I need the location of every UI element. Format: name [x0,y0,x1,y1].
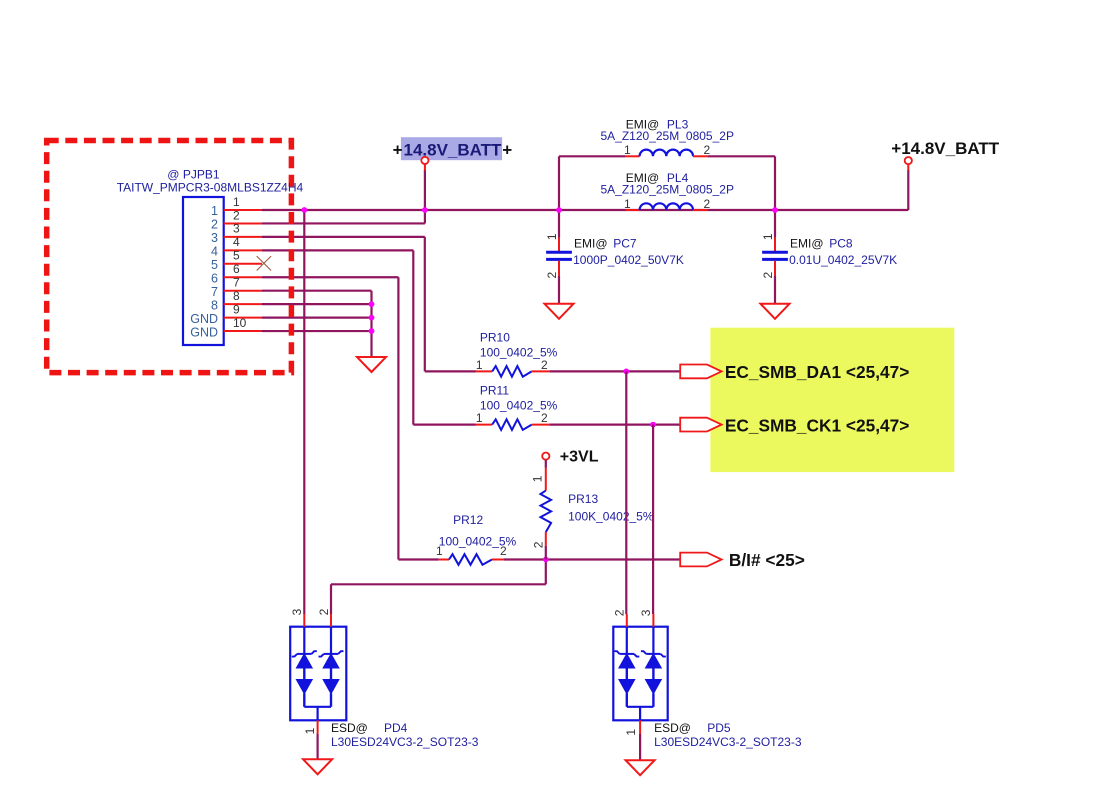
PD5 pin 3 stub [652,614,654,627]
left +14.8V_BATT terminal [421,157,428,164]
svg-text:6: 6 [211,271,218,285]
svg-text:1: 1 [476,358,483,372]
svg-text:GND: GND [190,312,218,326]
svg-text:5: 5 [233,249,240,263]
PJPB1 pin 6 stub [224,276,262,278]
svg-text:2: 2 [541,411,548,425]
ground symbol of PC7 [545,304,574,319]
junction bus / left terminal [422,207,428,213]
svg-text:1000P_0402_50V7K: 1000P_0402_50V7K [573,253,684,267]
svg-text:GND: GND [190,325,218,339]
PD5 pin 1 stub [639,720,641,734]
svg-text:8: 8 [211,298,218,312]
svg-text:3: 3 [639,609,653,616]
wire PR12 pin2 to B/I# node [504,558,546,560]
svg-text:TAITW_PMPCR3-08MLBS1ZZ4H4: TAITW_PMPCR3-08MLBS1ZZ4H4 [117,181,304,195]
yellow highlight box over SMBus net names [710,328,954,472]
svg-text:4: 4 [211,245,218,259]
svg-text:1: 1 [761,233,775,240]
resistor PR11 [476,424,492,426]
PJPB1 pin 3 stub [224,236,262,238]
svg-text:1: 1 [624,143,631,157]
resistor PR13 (vertical) [541,491,552,532]
PD4 pin 2 stub [330,614,332,627]
output flag EC_SMB_DA1 [680,365,721,379]
wire right +14.8V_BATT terminal riser [907,170,909,210]
svg-text:ESD@: ESD@ [654,721,691,735]
wire bus down to PD4 pin3 [303,210,305,614]
no-connect X on pin 5 [257,256,271,270]
svg-text:10: 10 [233,316,247,330]
svg-text:100_0402_5%: 100_0402_5% [480,399,558,413]
wire left +14.8V_BATT terminal riser [424,170,426,210]
svg-text:PC8: PC8 [829,237,853,251]
wire PC7 to ground [558,276,560,304]
svg-text:7: 7 [211,285,218,299]
junction SMB_CK1 node [650,422,656,428]
svg-text:+: + [393,140,403,159]
net label +14.8V_BATT (left, highlighted) [401,137,502,160]
output flag EC_SMB_CK1 [680,418,721,432]
svg-text:2: 2 [233,208,240,222]
svg-text:EMI@: EMI@ [574,237,608,251]
svg-text:2: 2 [612,609,626,616]
PJPB1 pin 8 stub [224,303,262,305]
svg-text:5: 5 [211,258,218,272]
wire B/I# node to flag [546,558,680,560]
svg-text:9: 9 [233,302,240,316]
PD5 pin 2 stub [626,614,628,627]
PJPB1 pin 1 stub [224,209,262,211]
svg-text:ESD@: ESD@ [331,721,368,735]
svg-text:+14.8V_BATT: +14.8V_BATT [891,139,999,158]
svg-text:3: 3 [290,608,304,615]
svg-text:3: 3 [233,222,240,236]
PJPB1 pin 5 stub [224,263,262,265]
PJPB1 pin 9 stub [224,317,262,319]
wire +14.8V_BATT bus (connector pin1 to right terminal) [262,209,908,211]
wire PR11 pin2 to EC_SMB_CK1 flag [549,424,680,426]
svg-text:2: 2 [211,218,218,232]
svg-text:14.8V_BATT: 14.8V_BATT [404,140,503,159]
svg-text:4: 4 [233,235,240,249]
resistor PR10 [476,370,492,372]
svg-text:EC_SMB_DA1 <25,47>: EC_SMB_DA1 <25,47> [725,362,909,382]
PJPB1 pin 4 stub [224,249,262,251]
svg-text:EMI@: EMI@ [790,237,824,251]
wire B/I# node down to PD4 pin2 [545,560,547,585]
svg-text:0.01U_0402_25V7K: 0.01U_0402_25V7K [789,253,897,267]
svg-text:1: 1 [476,411,483,425]
svg-text:5A_Z120_25M_0805_2P: 5A_Z120_25M_0805_2P [601,129,734,143]
svg-text:PD5: PD5 [707,721,731,735]
svg-text:PR13: PR13 [568,492,598,506]
svg-text:@ PJPB1: @ PJPB1 [167,168,220,182]
wire SMB_DA1 node down to PD5 pin2 [625,371,627,614]
output flag B/I# [680,553,721,567]
wire connector pin10 GND to ground rail [262,330,372,332]
junction bus / PD4 pin3 [301,207,307,213]
ground symbol under connector pins [357,357,386,372]
wire connector pin3 to PR10 pin1 [262,236,425,238]
ground symbol of PD4 [303,759,332,774]
svg-text:2: 2 [704,197,711,211]
svg-text:PR11: PR11 [480,384,509,398]
ESD diode array PD4 [290,627,346,721]
wire connector pin9 GND to ground rail [262,317,372,319]
ground symbol of PD5 [626,760,655,775]
svg-text:1: 1 [211,204,218,218]
PJPB1 pin 2 stub [224,222,262,224]
svg-text:2: 2 [545,272,559,279]
PD4 pin 1 stub [317,720,319,734]
wire PL3 upper branch [558,156,560,210]
svg-text:3: 3 [211,231,218,245]
connector PJPB1 body [183,197,224,345]
resistor PR12 [439,559,449,561]
svg-text:100K_0402_5%: 100K_0402_5% [568,510,654,524]
wire PC8 drop from bus [774,210,776,238]
wire connector pin8 to ground rail [262,303,372,305]
svg-text:L30ESD24VC3-2_SOT23-3: L30ESD24VC3-2_SOT23-3 [331,735,479,749]
PJPB1 pin 7 stub [224,290,262,292]
svg-text:2: 2 [541,358,548,372]
svg-text:+: + [502,140,512,159]
+3VL terminal [542,453,549,460]
capacitor PC8 [774,238,776,251]
wire connector pin6 to PR12 pin1 [262,276,398,278]
svg-text:100_0402_5%: 100_0402_5% [439,534,517,548]
junction SMB_DA1 node [623,369,629,375]
svg-text:6: 6 [233,262,240,276]
svg-text:1: 1 [233,195,240,209]
svg-text:B/I# <25>: B/I# <25> [729,550,805,570]
svg-text:8: 8 [233,289,240,303]
svg-text:2: 2 [761,272,775,279]
svg-text:1: 1 [624,197,631,211]
svg-text:L30ESD24VC3-2_SOT23-3: L30ESD24VC3-2_SOT23-3 [654,735,802,749]
capacitor PC7 [558,238,560,251]
svg-text:7: 7 [233,276,240,290]
wire PC8 to ground [774,276,776,304]
inductor PL3 [625,155,639,157]
svg-text:1: 1 [624,729,638,736]
junction gnd rail pin8 [369,301,375,307]
wire connector pin2 to bus [262,222,425,224]
svg-text:EC_SMB_CK1 <25,47>: EC_SMB_CK1 <25,47> [725,415,909,435]
svg-text:5A_Z120_25M_0805_2P: 5A_Z120_25M_0805_2P [601,183,734,197]
svg-text:100_0402_5%: 100_0402_5% [480,345,558,359]
svg-text:PC7: PC7 [613,237,637,251]
junction gnd rail pin10 [369,328,375,334]
inductor PL4 [625,209,639,211]
wire connector pin7 to ground rail [262,290,372,292]
wire +3VL terminal to PR13 pin1 [545,460,547,468]
junction gnd rail pin9 [369,315,375,321]
wire SMB_CK1 node down to PD5 pin3 [652,425,654,614]
PD4 pin 3 stub [303,614,305,627]
wire PD4 pin1 to ground [317,734,319,759]
ground symbol of PC8 [761,304,790,319]
svg-text:2: 2 [317,608,331,615]
wire connector pin4 to PR11 pin1 [262,249,413,251]
svg-text:PR10: PR10 [480,330,510,344]
svg-text:2: 2 [704,143,711,157]
svg-text:1: 1 [303,727,317,734]
ESD diode array PD5 [613,627,667,721]
svg-text:PR12: PR12 [453,513,483,527]
svg-text:1: 1 [545,233,559,240]
junction B/I# node [543,557,549,563]
PJPB1 pin 10 stub [224,330,262,332]
wire PC7 drop from bus [558,210,560,238]
right +14.8V_BATT terminal [905,157,912,164]
svg-text:2: 2 [532,541,546,548]
junction bus / PL branch right [772,207,778,213]
wire PR10 pin2 to EC_SMB_DA1 flag [549,370,680,372]
junction bus / PL branch left [556,207,562,213]
svg-text:PD4: PD4 [384,721,408,735]
wire PD5 pin1 to ground [639,734,641,760]
svg-text:+3VL: +3VL [560,449,599,466]
dashed selection box around PJPB1 [47,141,292,373]
svg-text:1: 1 [530,475,544,482]
